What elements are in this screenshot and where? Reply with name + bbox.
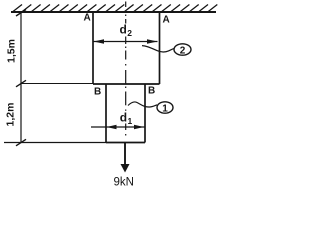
centerline (dash-dot axis)	[125, 2, 127, 136]
svg-text:2: 2	[180, 45, 186, 56]
extension line at step level	[21, 83, 93, 85]
load arrow 9kN	[124, 143, 126, 165]
lower bar segment 1 (diameter d1)	[106, 84, 145, 143]
leader to balloon 2	[142, 46, 174, 52]
ceiling (fixed support) line	[11, 11, 216, 13]
svg-text:1: 1	[162, 103, 168, 114]
svg-text:9kN: 9kN	[114, 177, 134, 189]
ceiling hatching	[13, 5, 217, 12]
left vertical dimension line	[20, 13, 22, 143]
svg-text:d: d	[120, 23, 127, 37]
svg-text:A: A	[84, 13, 91, 24]
leader to balloon 1	[128, 102, 157, 107]
d1 dimension line	[91, 125, 146, 130]
svg-text:A: A	[163, 15, 170, 26]
balloon 2	[174, 44, 191, 55]
svg-text:B: B	[148, 86, 155, 97]
svg-text:1,2m: 1,2m	[5, 103, 17, 127]
svg-text:1,5m: 1,5m	[6, 39, 18, 63]
svg-text:2: 2	[127, 28, 132, 38]
svg-text:1: 1	[128, 116, 133, 126]
svg-text:B: B	[94, 87, 101, 98]
d2 dimension line	[94, 39, 158, 44]
svg-text:d: d	[120, 111, 127, 125]
tick marks on dimension line	[16, 10, 26, 146]
upper bar segment 2 (diameter d2)	[93, 13, 160, 84]
extension line at bottom level	[4, 142, 106, 144]
balloon 1	[157, 102, 173, 113]
